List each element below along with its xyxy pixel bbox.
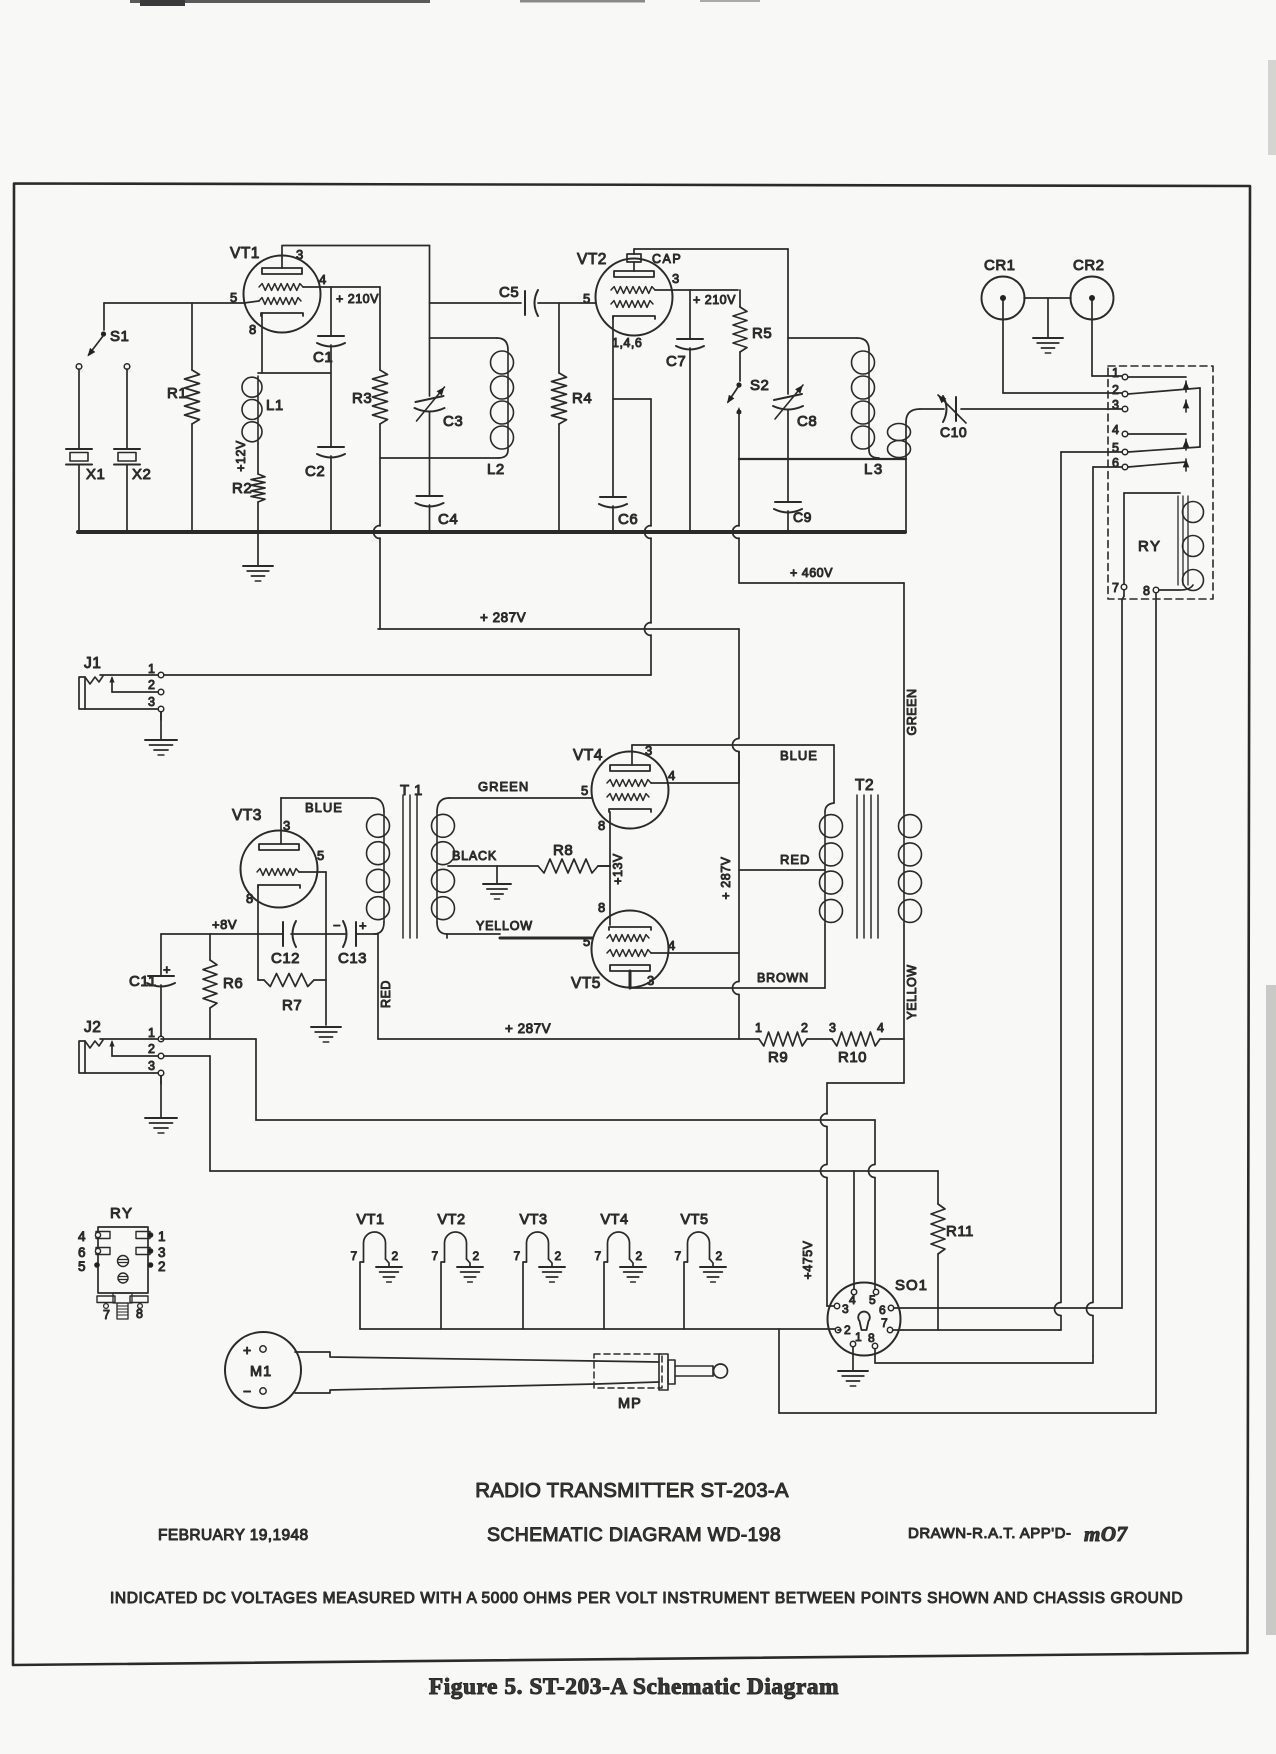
svg-text:CAP: CAP	[652, 252, 682, 266]
svg-text:3: 3	[647, 973, 655, 988]
svg-text:mO7: mO7	[1084, 1522, 1129, 1546]
svg-text:R7: R7	[282, 997, 302, 1014]
svg-text:C11: C11	[129, 973, 157, 990]
svg-text:R10: R10	[838, 1049, 867, 1066]
svg-text:2: 2	[716, 1249, 723, 1263]
svg-text:5: 5	[317, 848, 325, 863]
svg-text:SCHEMATIC DIAGRAM WD-198: SCHEMATIC DIAGRAM WD-198	[487, 1524, 781, 1546]
svg-text:R4: R4	[572, 390, 592, 407]
svg-text:7: 7	[351, 1249, 358, 1263]
svg-text:X2: X2	[132, 466, 151, 483]
svg-text:VT5: VT5	[681, 1212, 709, 1228]
svg-text:2: 2	[392, 1249, 399, 1263]
svg-text:8: 8	[249, 322, 257, 337]
svg-text:4: 4	[78, 1229, 86, 1244]
svg-text:VT2: VT2	[438, 1212, 466, 1228]
svg-text:5: 5	[583, 934, 591, 949]
svg-text:R8: R8	[553, 842, 573, 859]
svg-text:+: +	[243, 1342, 252, 1358]
svg-text:3: 3	[148, 1059, 155, 1073]
svg-text:4: 4	[1112, 423, 1119, 437]
svg-text:7: 7	[675, 1249, 682, 1263]
svg-text:C3: C3	[443, 413, 463, 430]
svg-text:C10: C10	[940, 424, 967, 440]
svg-text:+8V: +8V	[212, 917, 237, 932]
svg-text:R1: R1	[167, 385, 187, 402]
svg-text:C13: C13	[338, 950, 367, 967]
svg-text:4: 4	[877, 1021, 884, 1035]
svg-text:3: 3	[672, 271, 680, 286]
svg-text:+ 460V: + 460V	[790, 566, 833, 580]
svg-text:2: 2	[148, 678, 155, 692]
svg-text:M1: M1	[250, 1364, 272, 1380]
svg-text:FEBRUARY 19,1948: FEBRUARY 19,1948	[158, 1527, 309, 1544]
svg-text:VT1: VT1	[230, 245, 260, 262]
svg-text:C4: C4	[438, 511, 458, 528]
svg-text:T2: T2	[855, 777, 874, 794]
svg-text:S2: S2	[750, 377, 769, 394]
svg-text:2: 2	[801, 1021, 808, 1035]
svg-text:7: 7	[103, 1308, 110, 1322]
svg-text:Figure 5. ST-203-A Schematic D: Figure 5. ST-203-A Schematic Diagram	[429, 1674, 839, 1700]
svg-text:R6: R6	[223, 975, 243, 992]
svg-text:5: 5	[1112, 441, 1119, 455]
svg-text:2: 2	[844, 1323, 851, 1337]
svg-text:C8: C8	[797, 413, 817, 430]
svg-text:R2: R2	[232, 480, 252, 497]
svg-text:1: 1	[148, 662, 155, 676]
svg-text:2: 2	[158, 1259, 166, 1274]
svg-text:3: 3	[842, 1302, 849, 1316]
svg-text:5: 5	[869, 1293, 876, 1307]
svg-text:5: 5	[581, 783, 589, 798]
svg-text:RED: RED	[379, 980, 393, 1008]
svg-text:1: 1	[148, 1026, 155, 1040]
svg-text:3: 3	[829, 1021, 836, 1035]
svg-text:YELLOW: YELLOW	[905, 964, 919, 1019]
svg-text:R9: R9	[768, 1049, 788, 1066]
svg-text:C6: C6	[618, 511, 638, 528]
svg-text:3: 3	[296, 247, 304, 262]
svg-text:3: 3	[283, 818, 291, 833]
svg-text:S1: S1	[110, 328, 129, 345]
svg-text:C12: C12	[271, 950, 300, 967]
svg-text:BROWN: BROWN	[757, 971, 809, 985]
svg-text:4: 4	[668, 768, 676, 783]
svg-text:6: 6	[879, 1303, 886, 1317]
svg-text:6: 6	[78, 1245, 86, 1260]
svg-text:+ 210V: + 210V	[336, 292, 379, 306]
svg-text:5: 5	[583, 291, 591, 306]
svg-text:GREEN: GREEN	[478, 779, 529, 794]
svg-text:C1: C1	[313, 349, 333, 366]
svg-text:X1: X1	[86, 466, 105, 483]
svg-text:VT1: VT1	[357, 1212, 385, 1228]
svg-text:+: +	[163, 962, 171, 977]
svg-text:L1: L1	[266, 397, 284, 414]
svg-text:+ 287V: + 287V	[480, 610, 526, 625]
svg-text:R11: R11	[946, 1223, 974, 1240]
svg-text:5: 5	[78, 1259, 86, 1274]
svg-text:6: 6	[1112, 456, 1119, 470]
svg-text:VT4: VT4	[601, 1212, 629, 1228]
svg-text:VT2: VT2	[577, 251, 607, 268]
svg-text:2: 2	[1112, 383, 1119, 397]
svg-text:L3: L3	[864, 461, 884, 478]
svg-text:BLUE: BLUE	[780, 748, 818, 763]
svg-text:−: −	[243, 1383, 252, 1399]
svg-text:INDICATED DC VOLTAGES MEASU: INDICATED DC VOLTAGES MEASURED WITH A 50…	[110, 1590, 1183, 1607]
svg-text:T 1: T 1	[400, 782, 423, 799]
svg-text:C2: C2	[305, 463, 325, 480]
svg-text:7: 7	[1112, 581, 1119, 595]
svg-text:L2: L2	[487, 461, 505, 478]
svg-text:+ 287V: + 287V	[505, 1021, 551, 1036]
svg-text:3: 3	[148, 695, 155, 709]
svg-text:+ 210V: + 210V	[693, 293, 736, 307]
svg-text:VT3: VT3	[232, 807, 262, 824]
svg-text:7: 7	[881, 1316, 888, 1330]
svg-text:+12V: +12V	[234, 440, 248, 472]
svg-text:7: 7	[432, 1249, 439, 1263]
svg-text:CR2: CR2	[1073, 257, 1105, 274]
svg-text:1: 1	[755, 1021, 762, 1035]
svg-text:VT4: VT4	[573, 747, 603, 764]
svg-text:VT5: VT5	[571, 975, 601, 992]
svg-text:5: 5	[230, 290, 238, 305]
svg-text:RADIO TRANSMITTER ST-203-A: RADIO TRANSMITTER ST-203-A	[475, 1479, 789, 1502]
svg-text:2: 2	[555, 1249, 562, 1263]
svg-text:4: 4	[319, 272, 327, 287]
svg-text:RY: RY	[1138, 538, 1162, 555]
svg-text:CR1: CR1	[984, 257, 1016, 274]
svg-text:1: 1	[855, 1330, 862, 1344]
svg-text:SO1: SO1	[895, 1277, 928, 1294]
svg-text:C5: C5	[499, 284, 519, 301]
svg-text:1: 1	[1112, 366, 1119, 380]
svg-text:YELLOW: YELLOW	[476, 919, 533, 933]
svg-text:7: 7	[514, 1249, 521, 1263]
svg-text:R3: R3	[352, 390, 372, 407]
svg-text:4: 4	[849, 1293, 856, 1307]
svg-text:+13V: +13V	[611, 853, 625, 885]
svg-text:4: 4	[668, 938, 676, 953]
svg-text:2: 2	[148, 1042, 155, 1056]
svg-text:1: 1	[158, 1229, 166, 1244]
svg-text:RED: RED	[780, 852, 810, 867]
svg-text:8: 8	[136, 1307, 143, 1321]
svg-text:1,4,6: 1,4,6	[612, 336, 642, 350]
svg-text:2: 2	[473, 1249, 480, 1263]
svg-text:8: 8	[1143, 584, 1150, 598]
svg-text:+475V: +475V	[801, 1240, 815, 1279]
svg-text:2: 2	[636, 1249, 643, 1263]
svg-text:C7: C7	[666, 353, 686, 370]
svg-text:BLUE: BLUE	[305, 800, 343, 815]
svg-text:J2: J2	[84, 1019, 101, 1036]
svg-text:3: 3	[158, 1245, 166, 1260]
svg-text:8: 8	[598, 818, 606, 833]
svg-text:+: +	[359, 918, 367, 933]
svg-text:3: 3	[1112, 398, 1119, 412]
svg-text:+ 287V: + 287V	[719, 856, 733, 899]
svg-text:C9: C9	[793, 509, 812, 525]
svg-text:−: −	[333, 918, 341, 933]
svg-text:VT3: VT3	[520, 1212, 548, 1228]
svg-text:MP: MP	[618, 1396, 642, 1412]
svg-text:8: 8	[598, 900, 606, 915]
svg-text:R5: R5	[752, 325, 772, 342]
svg-text:RY: RY	[110, 1205, 134, 1222]
svg-text:GREEN: GREEN	[905, 689, 919, 736]
svg-text:8: 8	[246, 891, 254, 906]
svg-text:DRAWN-R.A.T. APP'D-: DRAWN-R.A.T. APP'D-	[908, 1525, 1071, 1542]
svg-text:J1: J1	[84, 655, 101, 672]
svg-text:7: 7	[595, 1249, 602, 1263]
svg-text:BLACK: BLACK	[452, 849, 497, 863]
svg-text:8: 8	[868, 1331, 875, 1345]
